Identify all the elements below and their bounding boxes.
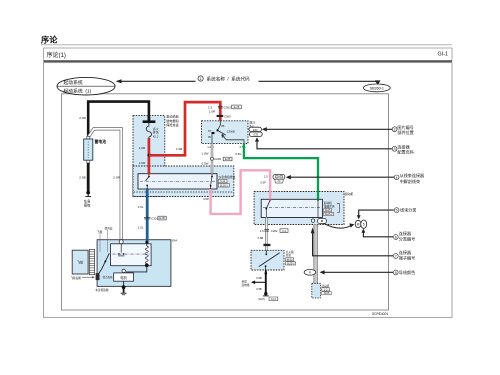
relay pin line (219, 121, 221, 125)
junction node (147, 154, 150, 157)
starter relay box (202, 121, 249, 144)
svg-text:E64: E64 (172, 239, 177, 243)
callout label 4 (394, 175, 399, 180)
callout 3 line (255, 137, 259, 141)
svg-text:电机: 电机 (120, 275, 127, 280)
svg-text:序论(1): 序论(1) (47, 51, 66, 59)
svg-text:9-12: 9-12 (220, 180, 226, 183)
junction box inner rect (138, 174, 217, 189)
svg-text:开关: 开关 (286, 254, 292, 258)
svg-text:C203: C203 (214, 157, 221, 161)
svg-text:1.0R: 1.0R (209, 110, 216, 114)
svg-text:序论: 序论 (41, 35, 58, 45)
svg-text:起动机: 起动机 (322, 284, 330, 288)
svg-text:0.5W: 0.5W (202, 162, 209, 166)
system name oval (57, 77, 115, 95)
svg-text:M-33: M-33 (287, 258, 293, 261)
svg-text:2.0B: 2.0B (79, 176, 85, 180)
callout 1 label (198, 76, 203, 81)
relay coil (212, 132, 215, 134)
svg-text:飞轮齿圈: 飞轮齿圈 (70, 276, 81, 280)
solenoid inner rect (261, 199, 322, 217)
connector bar above relay box (217, 115, 224, 117)
green pin line (317, 200, 319, 218)
battery negative wire (87, 163, 90, 191)
svg-text:啠合齿轮: 啠合齿轮 (103, 275, 114, 279)
pull-in coil (145, 246, 148, 264)
callout 4 line (286, 175, 291, 179)
callout label 3 (392, 146, 397, 151)
header bar (44, 48, 453, 61)
ring gear strip (89, 250, 94, 275)
coil bottom node (145, 263, 149, 267)
solenoid coil inner rect (111, 244, 152, 266)
svg-text:从线束连接器: 从线束连接器 (400, 172, 425, 178)
svg-text:E-05: E-05 (159, 216, 165, 220)
blue wire junction box to starter (146, 189, 149, 243)
title underline (41, 44, 452, 46)
callout label 8 (393, 270, 398, 275)
svg-text:7: 7 (395, 254, 397, 258)
fuse F1 (146, 123, 151, 138)
ground body (86, 191, 90, 195)
switch at red pin (148, 174, 150, 177)
svg-text:部件位置: 部件位置 (397, 129, 413, 135)
svg-text:SB360-1: SB360-1 (370, 86, 384, 90)
svg-text:起动系统 (1): 起动系统 (1) (64, 88, 92, 95)
blue wire terminal (145, 241, 148, 244)
callout 2 line (262, 127, 267, 131)
svg-text:2.0R: 2.0R (79, 116, 86, 120)
svg-text:连接器: 连接器 (399, 249, 411, 255)
starter solenoid box outer (254, 192, 344, 225)
svg-text:2.0R: 2.0R (113, 176, 120, 180)
svg-text:SL05: SL05 (324, 292, 330, 295)
svg-text:C200B: C200B (227, 129, 235, 133)
svg-text:M: M (357, 222, 360, 226)
blue wire into starter box (146, 239, 149, 243)
svg-text:飞轮: 飞轮 (77, 260, 84, 265)
engagement lever (101, 253, 109, 269)
branch to ground distribution (254, 281, 265, 283)
svg-text:1.0R: 1.0R (139, 161, 146, 165)
motor terminal (122, 269, 125, 272)
white wire relay to junction box (211, 144, 213, 174)
svg-text:1.5: 1.5 (260, 229, 264, 233)
callout label 7 (393, 254, 398, 259)
callout 7 line (311, 227, 315, 233)
callout 6 line (362, 228, 366, 232)
svg-text:飞轮: 飞轮 (97, 229, 103, 234)
svg-text:M-05: M-05 (325, 209, 331, 212)
svg-text:5: 5 (396, 209, 398, 213)
svg-text:C303: C303 (224, 105, 232, 109)
svg-text:C300: C300 (224, 114, 231, 118)
hollow cable terminal (119, 240, 123, 244)
svg-text:IG 2: IG 2 (153, 134, 159, 138)
junction box inner band line (134, 191, 234, 193)
callout label 2 (392, 127, 397, 132)
wire color oval (304, 269, 316, 275)
black wire below inhibitor (265, 270, 267, 293)
svg-text:SL05-3: SL05-3 (287, 262, 295, 265)
battery cable starter B terminal (313, 225, 317, 284)
svg-text:0.5P: 0.5P (203, 197, 209, 201)
red wire into junction box (148, 166, 151, 175)
svg-text:接地线: 接地线 (242, 283, 250, 287)
svg-text:系统名称 / 系统代码: 系统名称 / 系统代码 (207, 75, 251, 82)
switch diagonal (259, 253, 280, 267)
green wire (244, 144, 318, 200)
red wire loop to relay (149, 102, 220, 155)
svg-text:1.5R: 1.5R (176, 147, 183, 151)
svg-text:2: 2 (394, 128, 396, 132)
svg-text:1.0R: 1.0R (139, 146, 146, 150)
bus dash-dot line (140, 181, 215, 183)
svg-text:GI-1: GI-1 (438, 52, 448, 58)
svg-text:E33: E33 (253, 128, 258, 132)
flywheel box (72, 250, 88, 274)
svg-text:12-3: 12-3 (271, 298, 276, 301)
svg-text:E33: E33 (253, 133, 258, 137)
inner diagram box (62, 94, 389, 310)
svg-text:中解剖线束: 中解剖线束 (400, 178, 420, 184)
callout 1 arrow left (116, 79, 122, 83)
ground G07 (264, 292, 267, 295)
motor M1 (114, 273, 134, 281)
callout 5 line (357, 215, 361, 219)
callout label 5 (394, 208, 399, 213)
svg-text:SL05-2: SL05-2 (325, 213, 333, 216)
svg-text:0.5P: 0.5P (260, 181, 266, 185)
svg-text:1.5L: 1.5L (138, 205, 144, 209)
connector pill 1 (249, 127, 261, 131)
svg-text:车身搭铁图: 车身搭铁图 (95, 288, 108, 292)
starter assembly box (97, 240, 171, 287)
pink wire junction box to solenoid (211, 170, 271, 214)
svg-text:仪表盘接线盒: 仪表盘接线盒 (219, 175, 236, 179)
callout 8 line (320, 270, 325, 274)
svg-text:(G07): (G07) (258, 297, 265, 301)
svg-text:蓄电池: 蓄电池 (95, 139, 107, 144)
svg-text:1.5L: 1.5L (138, 226, 144, 230)
connector pill 2 (249, 132, 262, 136)
svg-text:4: 4 (396, 176, 398, 180)
svg-text:起动机: 起动机 (324, 201, 332, 205)
svg-text:分类编号: 分类编号 (399, 235, 415, 241)
svg-text:起动机: 起动机 (345, 191, 354, 196)
pinion gear (96, 273, 100, 280)
pink wire into solenoid box (269, 191, 271, 199)
figure number oval SB360-1 (363, 84, 390, 92)
red wire from fuse (148, 138, 151, 175)
svg-text:搭铁: 搭铁 (84, 203, 91, 208)
svg-text:0.5G: 0.5G (235, 152, 241, 156)
svg-text:参见: 参见 (242, 279, 248, 283)
svg-text:ST: ST (208, 129, 212, 133)
svg-text:啠合杠: 啠合杠 (105, 226, 113, 230)
svg-text:线束分类: 线束分类 (400, 207, 416, 213)
callout 1 arrow right to figure oval (259, 80, 378, 83)
page ref box E-05 (223, 157, 232, 161)
inhibitor switch box (251, 250, 284, 270)
svg-text:保险丝盒: 保险丝盒 (166, 122, 178, 127)
svg-text:端子编号: 端子编号 (399, 254, 415, 260)
hollow battery cable to starter (89, 129, 122, 240)
svg-text:C202: C202 (271, 229, 278, 233)
svg-text:SL05-2: SL05-2 (220, 184, 229, 187)
black feed into fuse box (147, 116, 150, 121)
pink pin and switch (269, 199, 271, 201)
svg-text:C-2: C-2 (282, 229, 287, 233)
svg-text:GCRE4004: GCRE4004 (372, 312, 389, 316)
relay output path (222, 134, 224, 136)
connector number circle (361, 220, 367, 228)
svg-text:E-05: E-05 (225, 157, 231, 161)
callout label 6 (393, 235, 398, 240)
relay switch arm (216, 129, 218, 131)
svg-text:连接器: 连接器 (399, 230, 411, 236)
svg-text:0.5B: 0.5B (256, 276, 262, 280)
harness class circle M (355, 220, 361, 227)
svg-text:电磁开关: 电磁开关 (324, 204, 335, 208)
svg-text:1.0W: 1.0W (207, 145, 214, 149)
starter motor B small box (312, 283, 321, 298)
svg-text:86: 86 (221, 124, 224, 128)
svg-text:E-26: E-26 (234, 105, 240, 109)
harness connector icon (273, 174, 285, 179)
svg-text:点火锁: 点火锁 (286, 250, 294, 254)
svg-text:起动系统: 起动系统 (64, 79, 83, 86)
svg-text:配置页码: 配置页码 (397, 149, 413, 155)
solenoid bottom terminals (311, 219, 314, 222)
green wire into solenoid box (317, 191, 319, 199)
battery feed thick black wire (88, 102, 149, 138)
white wire into junction box (211, 166, 213, 174)
svg-text:1.5: 1.5 (264, 175, 268, 179)
svg-text:导线颜色: 导线颜色 (399, 269, 415, 275)
inline connector C203 (211, 157, 214, 160)
svg-text:C301: C301 (151, 216, 158, 220)
switch at white pin (211, 174, 213, 177)
teal pin tick (146, 185, 148, 187)
plunger contact (120, 244, 122, 253)
fuse box (engine room) (133, 116, 165, 197)
curved pointer to harness codes (324, 223, 351, 228)
svg-text:5: 5 (363, 223, 365, 227)
inline connector C301 on blue wire (144, 216, 150, 218)
svg-text:R: R (309, 271, 311, 275)
motor ground (123, 281, 125, 285)
outer frame (44, 63, 453, 318)
svg-text:1: 1 (200, 77, 202, 81)
battery B1 (87, 136, 90, 139)
svg-text:3: 3 (394, 147, 396, 151)
connector bar at fuse box top (143, 120, 156, 123)
svg-text:0.5B: 0.5B (256, 287, 262, 291)
svg-text:0.5B: 0.5B (258, 236, 264, 240)
svg-text:1.0W: 1.0W (202, 152, 209, 156)
svg-text:8: 8 (395, 271, 397, 275)
white wire solenoid to inhibitor switch (265, 218, 267, 251)
svg-text:6: 6 (395, 235, 397, 239)
instrument junction box outer (133, 166, 234, 197)
page ref box E-26 (232, 105, 242, 109)
